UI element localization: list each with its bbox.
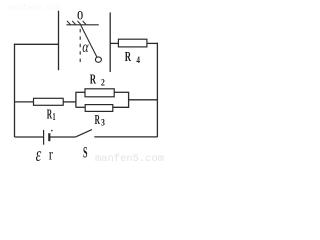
resistor R2 — [85, 89, 114, 97]
wire parallel block to right rail — [129, 99, 158, 101]
svg-text:R: R — [90, 71, 96, 86]
wire R3 to right connector — [113, 106, 129, 108]
wire right plate to R4 — [110, 42, 118, 44]
wire bottom left — [15, 136, 44, 138]
node: right connector of parallel block — [128, 92, 130, 107]
svg-text:1: 1 — [53, 112, 56, 123]
wire right vertical rail — [156, 43, 158, 137]
node: left connector of parallel block — [75, 92, 77, 108]
svg-text:4: 4 — [136, 55, 140, 65]
wire to R3 — [76, 106, 85, 108]
switch S blade — [76, 130, 92, 137]
svg-text:R: R — [125, 49, 131, 64]
svg-text:α: α — [82, 39, 89, 56]
wire switch to right rail — [94, 136, 157, 138]
ceiling hatching — [67, 21, 86, 25]
pendulum string — [81, 25, 97, 57]
resistor R3 — [85, 105, 113, 112]
wire R4 to right rail — [147, 42, 158, 44]
battery cell short plate — [48, 133, 50, 141]
svg-text:O: O — [77, 8, 83, 23]
svg-text:S: S — [83, 144, 88, 161]
stray dot — [51, 130, 53, 132]
wire to R2 — [76, 91, 85, 93]
svg-text:R: R — [95, 112, 100, 127]
dashed vertical reference line — [79, 29, 81, 62]
wire battery to switch — [49, 136, 75, 138]
resistor R1 — [34, 98, 64, 105]
wire R1 to parallel block — [63, 101, 76, 103]
svg-text:ε: ε — [36, 145, 42, 164]
wire top-left horizontal — [14, 43, 59, 45]
ceiling support line — [66, 24, 98, 26]
wire left rail to R1 — [15, 101, 34, 103]
resistor R4 — [118, 39, 146, 47]
wire R2 to right connector — [114, 91, 129, 93]
svg-text:2: 2 — [101, 78, 105, 88]
wire left vertical — [14, 44, 16, 137]
svg-text:r: r — [49, 147, 54, 164]
capacitor left plate — [58, 11, 60, 70]
svg-text:manfen5.com: manfen5.com — [95, 153, 164, 164]
svg-text:R: R — [47, 107, 52, 122]
svg-text:manfen5.com: manfen5.com — [8, 4, 61, 13]
svg-text:3: 3 — [101, 118, 105, 128]
battery cell long plate — [43, 130, 45, 145]
capacitor right plate — [109, 12, 111, 72]
pendulum bob — [95, 57, 101, 62]
